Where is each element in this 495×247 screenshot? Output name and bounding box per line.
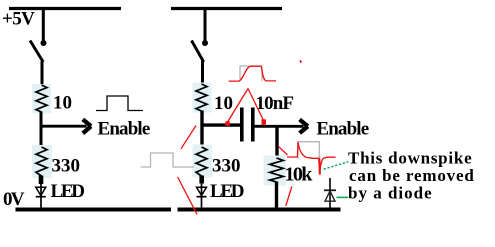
node dot (switch top contact) xyxy=(41,40,47,46)
annotation: red pointer leg right (apex to cap right node) xyxy=(248,89,264,122)
red junction dot left of capacitor xyxy=(225,121,230,126)
resistor R5 10k zigzag xyxy=(270,158,284,182)
annotation: red pointer leg left (apex to cap left node) xyxy=(227,89,248,123)
resistor 330 highlight box (left) xyxy=(32,145,52,178)
svg-text:This downspike: This downspike xyxy=(348,149,472,168)
+5V rail (left circuit) xyxy=(9,7,121,10)
switch SW2 (open blade) xyxy=(192,41,204,63)
annotation: red pointer from wire to spike waveform xyxy=(278,146,287,155)
svg-text:330: 330 xyxy=(212,156,241,177)
capacitor C1 left plate xyxy=(240,108,244,142)
small red tick mark xyxy=(300,60,302,63)
resistor 10 highlight box (right) xyxy=(193,83,212,113)
red downspike emphasis xyxy=(318,159,321,175)
svg-text:10nF: 10nF xyxy=(256,93,294,114)
wire from rail down to switch node (right) xyxy=(204,9,207,41)
svg-text:0V: 0V xyxy=(3,189,25,210)
annotation: gray ideal pulse box at 10k xyxy=(298,142,319,161)
annotation: green dashed pointer from downspike to note xyxy=(324,162,349,170)
diode D3 cathode bar xyxy=(324,189,336,191)
resistor 10k highlight box xyxy=(264,156,287,186)
wire from switch to resistor 10 (right) xyxy=(201,61,204,85)
svg-text:by a diode: by a diode xyxy=(348,183,433,202)
annotation: red line below 10k to rail xyxy=(286,187,292,207)
annotation: green dash from diode to note xyxy=(337,196,349,198)
resistor R4 330 zigzag (right) xyxy=(196,147,207,176)
diode D3 triangle xyxy=(325,191,335,201)
wire from switch to resistor 10 xyxy=(41,61,44,86)
wire from 330 to LED to rail (right) xyxy=(201,182,203,208)
resistor 330 highlight box (right) xyxy=(193,145,213,178)
svg-text:10k: 10k xyxy=(285,163,314,185)
input pulse waveform (black) xyxy=(96,96,143,111)
enable arrow shaft (left) xyxy=(40,125,87,128)
resistor R2 330 zigzag (left) xyxy=(36,147,47,176)
svg-text:10: 10 xyxy=(53,93,72,114)
enable arrowhead (left) xyxy=(83,119,91,133)
annotation: red differentiated spike waveform xyxy=(287,142,336,175)
annotation: red rounded pulse above capacitor xyxy=(229,66,276,81)
wire from resistor 10 through node down to 330 (right) xyxy=(200,111,203,149)
enable arrowhead (right) xyxy=(300,120,308,134)
wire from 10k to rail xyxy=(275,182,278,209)
svg-text:Enable: Enable xyxy=(98,119,150,140)
LED D2 triangle (right) xyxy=(197,187,207,195)
+5V rail (right circuit) xyxy=(171,7,282,10)
svg-text:330: 330 xyxy=(52,156,81,177)
0V rail (left circuit) xyxy=(16,208,172,212)
annotation: red line from gray pulse to node xyxy=(181,126,196,149)
LED D1 triangle (left) xyxy=(36,187,46,195)
annotation: red line to 0V rail near LED xyxy=(178,177,197,214)
svg-text:+5V: +5V xyxy=(2,9,35,30)
resistor 10 highlight box xyxy=(32,84,51,114)
wire 10k branch from node bar xyxy=(275,125,278,159)
annotation: gray ideal pulse above capacitor xyxy=(240,66,262,81)
wire from resistor 10 through node to resistor 330 xyxy=(40,112,43,149)
node dot (right switch top contact) xyxy=(202,40,208,46)
svg-text:Enable: Enable xyxy=(316,119,368,140)
svg-text:LED: LED xyxy=(210,181,244,202)
thick wire stub below 330 (left) xyxy=(39,176,44,185)
resistor R1 10 zigzag xyxy=(36,85,47,112)
wire from 330 to LED to rail (left) xyxy=(40,182,42,208)
annotation: gray trailing pulse between circuits xyxy=(141,153,195,167)
LED D1 cathode bar (left) xyxy=(36,196,46,198)
svg-text:LED: LED xyxy=(51,181,85,202)
diode D3 wire xyxy=(329,178,331,208)
LED D2 cathode bar (right) xyxy=(197,196,207,198)
enable arrow shaft (right) xyxy=(255,125,304,128)
thick wire stub below 330 (right) xyxy=(199,176,204,184)
svg-text:10: 10 xyxy=(214,93,233,114)
svg-text:can be removed: can be removed xyxy=(349,166,475,185)
red junction dot right of capacitor xyxy=(262,119,267,125)
node bar wire to capacitor xyxy=(202,123,240,126)
switch SW1 (open blade) xyxy=(30,41,43,63)
capacitor C1 right plate xyxy=(251,108,255,142)
0V rail (right circuit) xyxy=(178,208,341,212)
resistor R3 10 zigzag (right) xyxy=(196,84,207,111)
wire from +5V rail down to switch node xyxy=(42,9,45,41)
